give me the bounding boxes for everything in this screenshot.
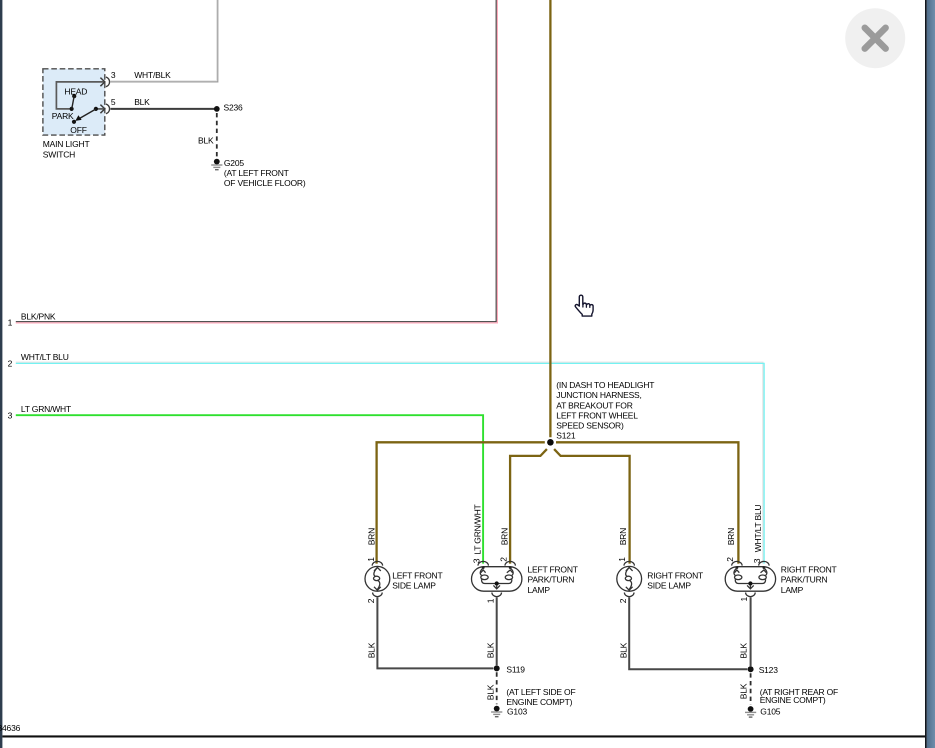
svg-text:S123: S123 xyxy=(759,665,779,675)
switch contact HEAD xyxy=(72,94,76,98)
wire BLK lamp1 down to S119 xyxy=(377,597,493,668)
switch internal wire from pin 3 to PARK contact xyxy=(56,82,103,109)
switch lever PARK-HEAD xyxy=(72,96,74,108)
svg-text:S119: S119 xyxy=(506,665,525,675)
wire BLK dashed S236 to G205 xyxy=(216,113,218,157)
svg-text:LEFT FRONT: LEFT FRONT xyxy=(528,565,578,575)
svg-text:BLK: BLK xyxy=(134,97,150,107)
svg-text:RIGHT FRONT: RIGHT FRONT xyxy=(781,565,837,575)
svg-text:1: 1 xyxy=(8,317,13,327)
svg-text:BRN: BRN xyxy=(726,528,736,545)
svg-text:3: 3 xyxy=(752,558,762,563)
wire BLK lamp4 down to S123 xyxy=(750,597,752,666)
node S121 xyxy=(547,439,554,446)
svg-text:MAIN LIGHT: MAIN LIGHT xyxy=(43,139,90,149)
switch contact OFF xyxy=(72,120,76,124)
pin 5 connector chevron xyxy=(100,105,104,114)
svg-text:SIDE LAMP: SIDE LAMP xyxy=(392,581,436,591)
svg-text:LAMP: LAMP xyxy=(528,585,551,595)
svg-text:34636: 34636 xyxy=(0,723,21,733)
wire BLK dashed S119 to G103 xyxy=(496,672,498,704)
svg-text:BLK: BLK xyxy=(739,643,749,659)
svg-text:BLK/PNK: BLK/PNK xyxy=(21,312,56,322)
svg-text:AT BREAKOUT FOR: AT BREAKOUT FOR xyxy=(556,400,632,410)
svg-text:ENGINE COMPT): ENGINE COMPT) xyxy=(760,695,826,705)
svg-text:HEAD: HEAD xyxy=(64,86,87,96)
lamp E1 LEFT FRONT SIDE LAMP xyxy=(365,561,390,596)
lamp E2 LEFT FRONT PARK/TURN LAMP xyxy=(472,561,522,596)
svg-text:3: 3 xyxy=(472,558,482,563)
svg-text:JUNCTION HARNESS,: JUNCTION HARNESS, xyxy=(556,390,641,400)
svg-text:2: 2 xyxy=(8,358,13,368)
svg-text:LAMP: LAMP xyxy=(781,585,804,595)
svg-text:BRN: BRN xyxy=(367,528,377,545)
node S119 xyxy=(494,665,500,671)
ground G105 xyxy=(745,706,756,718)
svg-text:(IN DASH TO HEADLIGHT: (IN DASH TO HEADLIGHT xyxy=(556,380,654,390)
svg-text:BRN: BRN xyxy=(499,528,509,545)
ground G103 xyxy=(491,706,502,718)
svg-text:2: 2 xyxy=(499,557,509,562)
svg-text:G103: G103 xyxy=(507,707,527,717)
svg-text:5: 5 xyxy=(111,97,116,107)
svg-text:1: 1 xyxy=(366,557,376,562)
node S236 xyxy=(214,106,220,112)
svg-text:WHT/BLK: WHT/BLK xyxy=(134,70,171,80)
wire BRN vertical from top to S121 xyxy=(549,0,551,437)
lamp E4 RIGHT FRONT PARK/TURN LAMP xyxy=(725,561,775,596)
svg-text:(AT LEFT SIDE OF: (AT LEFT SIDE OF xyxy=(506,687,575,697)
wire 1 BLK/PNK xyxy=(16,0,496,322)
svg-text:2: 2 xyxy=(725,557,735,562)
wire 2 WHT/LT BLU xyxy=(16,362,763,563)
wire BLK lamp3 down to S123 xyxy=(629,597,747,669)
switch internal wire pivot to pin 5 xyxy=(98,108,104,110)
svg-text:LEFT FRONT: LEFT FRONT xyxy=(392,570,442,580)
svg-text:LT GRN/WHT: LT GRN/WHT xyxy=(21,404,71,414)
svg-text:1: 1 xyxy=(486,598,496,603)
svg-text:BLK: BLK xyxy=(486,642,496,658)
svg-text:(AT LEFT FRONT: (AT LEFT FRONT xyxy=(224,168,289,178)
svg-text:LEFT FRONT WHEEL: LEFT FRONT WHEEL xyxy=(556,410,638,420)
svg-text:OF VEHICLE FLOOR): OF VEHICLE FLOOR) xyxy=(224,178,306,188)
frame bottom rule line xyxy=(2,735,925,737)
svg-text:PARK/TURN: PARK/TURN xyxy=(781,575,828,585)
wire BRN main horizontal run xyxy=(377,442,739,563)
wire BLK lamp2 down to S119 xyxy=(496,597,498,665)
svg-text:LT GRN/WHT: LT GRN/WHT xyxy=(472,504,482,554)
svg-text:PARK: PARK xyxy=(52,111,74,121)
svg-text:ENGINE COMPT): ENGINE COMPT) xyxy=(506,697,572,707)
svg-text:BLK: BLK xyxy=(739,683,749,699)
svg-text:WHT/LT BLU: WHT/LT BLU xyxy=(753,504,763,552)
wire 3 LT GRN/WHT xyxy=(16,415,483,563)
svg-text:SPEED SENSOR): SPEED SENSOR) xyxy=(556,421,624,431)
svg-text:PARK/TURN: PARK/TURN xyxy=(528,575,575,585)
svg-text:SWITCH: SWITCH xyxy=(43,149,75,159)
pin 5 connector arc xyxy=(106,104,110,114)
lamp E3 RIGHT FRONT SIDE LAMP xyxy=(617,561,642,596)
pin 3 connector chevron xyxy=(100,78,104,87)
svg-text:G105: G105 xyxy=(760,706,780,716)
svg-text:BRN: BRN xyxy=(618,528,628,545)
svg-text:2: 2 xyxy=(366,598,376,603)
frame left border line xyxy=(0,0,2,748)
main light switch U1 dashed box xyxy=(43,69,105,135)
svg-text:SIDE LAMP: SIDE LAMP xyxy=(647,581,691,591)
svg-text:BLK: BLK xyxy=(367,642,377,658)
svg-text:S121: S121 xyxy=(556,431,576,441)
svg-text:1: 1 xyxy=(617,557,627,562)
switch pivot contact xyxy=(94,107,98,111)
svg-text:OFF: OFF xyxy=(70,125,86,135)
svg-text:BLK: BLK xyxy=(486,684,496,700)
svg-text:BLK: BLK xyxy=(618,642,628,658)
svg-text:3: 3 xyxy=(8,410,13,420)
svg-text:G205: G205 xyxy=(224,158,244,168)
switch contact PARK xyxy=(70,107,74,111)
wire BLK pin 5 to S236 xyxy=(111,108,217,110)
svg-text:RIGHT FRONT: RIGHT FRONT xyxy=(647,570,703,580)
svg-text:2: 2 xyxy=(618,598,628,603)
wire BLK dashed S123 to G105 xyxy=(750,673,752,704)
mouse hand cursor xyxy=(575,295,593,316)
node S123 xyxy=(748,666,754,672)
wire WHT/BLK from pin 3 up offscreen xyxy=(111,0,217,81)
pin 3 connector arc xyxy=(106,77,110,87)
svg-text:3: 3 xyxy=(111,70,116,80)
ground G205 xyxy=(211,159,222,171)
close button xyxy=(845,8,905,68)
svg-text:WHT/LT BLU: WHT/LT BLU xyxy=(21,352,69,362)
svg-text:1: 1 xyxy=(739,597,749,602)
svg-text:BLK: BLK xyxy=(198,136,214,146)
wire BRN breakout bracket xyxy=(510,449,629,563)
svg-text:S236: S236 xyxy=(224,103,244,113)
switch lever arrow pivot to OFF xyxy=(79,109,96,119)
